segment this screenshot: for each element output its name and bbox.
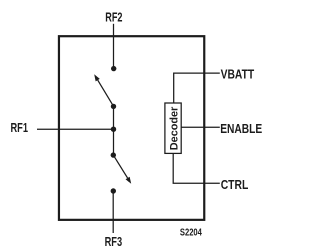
svg-text:S2204: S2204 bbox=[180, 227, 202, 239]
svg-text:VBATT: VBATT bbox=[221, 68, 255, 82]
decoder block U1 bbox=[165, 103, 181, 153]
node RF3 terminal bbox=[111, 188, 116, 193]
node RF2 terminal bbox=[111, 66, 116, 71]
svg-text:RF1: RF1 bbox=[11, 121, 29, 135]
svg-text:ENABLE: ENABLE bbox=[220, 122, 262, 136]
wire RF2 to node bbox=[113, 24, 115, 69]
node switch arm top bbox=[111, 104, 116, 109]
switch arm arrow to RF3 (open) bbox=[113, 155, 131, 184]
svg-text:RF2: RF2 bbox=[105, 10, 122, 24]
svg-text:CTRL: CTRL bbox=[221, 178, 249, 192]
wire ENABLE bbox=[181, 126, 220, 128]
svg-text:Decoder: Decoder bbox=[169, 106, 181, 150]
svg-text:RF3: RF3 bbox=[105, 235, 123, 249]
wire RF3 bbox=[112, 191, 114, 233]
switch arm arrow to RF2 (open) bbox=[94, 74, 113, 106]
node switch arm bottom bbox=[111, 152, 116, 157]
wire CTRL bbox=[173, 153, 220, 183]
wire VBATT bbox=[174, 73, 220, 103]
wire common vertical segment bbox=[113, 106, 115, 155]
node RF1 common bbox=[111, 127, 116, 132]
wire RF1 bbox=[37, 128, 114, 130]
device outline box bbox=[59, 36, 204, 220]
